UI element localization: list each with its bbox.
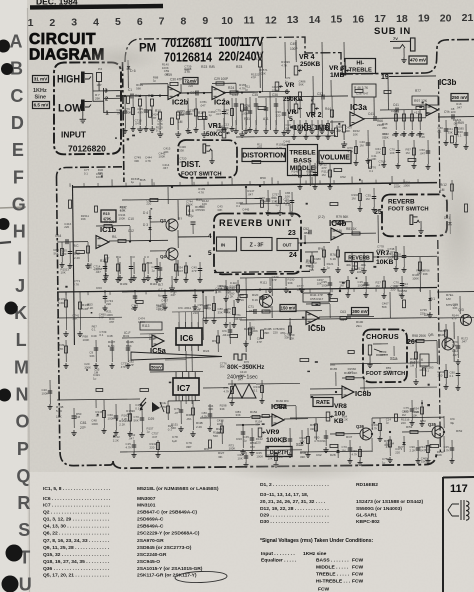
wire [289, 428, 291, 452]
svg-text:47P: 47P [292, 173, 297, 177]
svg-text:TREBLE: TREBLE [289, 150, 316, 157]
svg-text:1μ: 1μ [311, 169, 315, 173]
wire [187, 98, 189, 128]
wire [145, 96, 147, 126]
svg-text:0.1: 0.1 [438, 129, 442, 133]
signal level box 300mV [352, 308, 369, 316]
svg-text:2SA1015-Y (or 2SA1015-GR): 2SA1015-Y (or 2SA1015-GR) [137, 566, 203, 572]
wire [249, 97, 251, 127]
wire [401, 276, 403, 293]
rail components [111, 179, 113, 186]
svg-text:.047: .047 [379, 353, 385, 357]
svg-text:R113: R113 [142, 324, 150, 328]
wire [245, 187, 247, 204]
svg-text:4.7K: 4.7K [444, 448, 450, 452]
svg-text:Hi-TREBLE . . .: Hi-TREBLE . . . [316, 579, 351, 585]
svg-text:220: 220 [150, 445, 155, 449]
svg-text:100K: 100K [242, 111, 249, 115]
svg-text:23: 23 [288, 230, 296, 237]
wire [205, 296, 207, 318]
svg-text:18: 18 [396, 13, 408, 25]
wire [395, 246, 397, 266]
svg-text:100K: 100K [149, 337, 156, 341]
svg-text:33K: 33K [242, 211, 247, 215]
wire [403, 246, 405, 267]
svg-text:C63: C63 [340, 310, 346, 314]
svg-text:10K: 10K [353, 132, 358, 136]
wire [279, 190, 281, 210]
IC8b wiring [335, 372, 337, 386]
q35 bias wires [372, 416, 444, 419]
svg-text:.047: .047 [237, 378, 243, 382]
svg-text:D3~11, 13, 14, 17, 18,: D3~11, 13, 14, 17, 18, [260, 492, 309, 498]
TREBLE BASS MIDDLE box [288, 145, 318, 176]
svg-text:B6K: B6K [126, 344, 132, 348]
svg-text:TREBLE: TREBLE [349, 68, 372, 74]
svg-text:47P: 47P [452, 317, 457, 321]
tone stack pot VR2 symbol [311, 104, 315, 113]
svg-text:Q4: Q4 [160, 254, 166, 259]
svg-text:4.7K: 4.7K [425, 448, 431, 452]
wire IC2a out [225, 91, 258, 93]
svg-text:2.2K: 2.2K [276, 146, 282, 150]
svg-text:A: A [10, 32, 23, 52]
svg-text:REVERB UNIT: REVERB UNIT [219, 218, 292, 228]
svg-text:HI-: HI- [356, 61, 364, 67]
svg-text:220: 220 [307, 173, 312, 177]
right edge wires [437, 291, 474, 293]
IC5a feedback box [140, 322, 162, 330]
svg-text:Q5, 17, 20, 21 . . . . . . . .: Q5, 17, 20, 21 . . . . . . . . . . . . . [43, 573, 110, 579]
svg-text:10K: 10K [412, 413, 417, 417]
svg-text:5.6K: 5.6K [58, 301, 64, 305]
svg-text:1M: 1M [340, 283, 345, 287]
svg-text:47P: 47P [109, 320, 114, 324]
wire [413, 140, 415, 163]
svg-text:33K: 33K [179, 148, 184, 152]
svg-text:1μ: 1μ [455, 130, 459, 134]
svg-text:C21: C21 [190, 91, 196, 95]
svg-text:DISTORTION: DISTORTION [242, 153, 285, 160]
svg-text:C63: C63 [96, 286, 102, 290]
svg-text:8.1K: 8.1K [238, 298, 244, 302]
section separator chain line [214, 271, 310, 272]
wire [122, 291, 214, 292]
svg-text:2: 2 [105, 97, 108, 103]
grounds under reverb [351, 252, 353, 268]
svg-text:1μ: 1μ [386, 421, 390, 425]
wire [150, 370, 203, 373]
svg-text:R109: R109 [120, 282, 128, 286]
svg-text:BASS . . . . . . .: BASS . . . . . . . [316, 558, 349, 564]
svg-text:470 mV: 470 mV [410, 58, 427, 63]
svg-text:R98 290K: R98 290K [412, 334, 427, 338]
IC8a wiring [250, 416, 272, 418]
reverb IN box [217, 237, 237, 251]
svg-text:R79 56K: R79 56K [336, 215, 349, 219]
input jack ground [82, 111, 84, 116]
svg-text:1μ: 1μ [245, 88, 249, 92]
wire [233, 300, 235, 322]
svg-text:HIGH: HIGH [57, 74, 80, 86]
svg-text:C38 -047: C38 -047 [356, 92, 369, 96]
svg-text:10K: 10K [238, 456, 243, 460]
svg-text:R/2F: R/2F [252, 293, 259, 297]
svg-text:1μ: 1μ [147, 430, 151, 434]
IC5b out cap C63 [319, 315, 374, 318]
svg-text:220: 220 [188, 84, 193, 88]
svg-text:R/L: R/L [112, 235, 117, 239]
svg-text:8.1K: 8.1K [252, 298, 258, 302]
svg-text:D 3: D 3 [143, 223, 148, 227]
svg-text:VR8: VR8 [334, 403, 347, 410]
board outline bottom edge [60, 452, 113, 466]
svg-text:37K: 37K [330, 363, 335, 367]
svg-text:C41: C41 [368, 112, 374, 116]
boxed DEPTH label [266, 447, 292, 457]
Q37 emitter chain [245, 278, 248, 340]
svg-text:2: 2 [49, 17, 55, 29]
wire [167, 187, 169, 204]
svg-text:220: 220 [146, 202, 151, 206]
svg-text:MIDDLE . . . . .: MIDDLE . . . . . [316, 565, 349, 571]
svg-text:4: 4 [208, 233, 212, 240]
svg-text:220: 220 [420, 311, 425, 315]
svg-text:R152: R152 [250, 410, 258, 414]
svg-text:47P: 47P [317, 163, 322, 167]
svg-text:Q3: Q3 [160, 218, 166, 223]
svg-text:100K: 100K [84, 366, 91, 370]
svg-text:FCW: FCW [352, 565, 364, 571]
svg-text:56K: 56K [452, 343, 457, 347]
svg-text:220: 220 [106, 302, 111, 306]
svg-text:R111: R111 [260, 281, 267, 285]
svg-text:Q36 . . . . . . . . . . . . .: Q36 . . . . . . . . . . . . . . . . . . … [43, 566, 110, 572]
svg-text:100K: 100K [162, 66, 169, 70]
svg-text:0.1: 0.1 [135, 406, 139, 410]
wire [289, 98, 291, 112]
wire [156, 258, 158, 277]
svg-text:100K: 100K [42, 391, 49, 395]
svg-text:15K: 15K [56, 415, 63, 419]
svg-text:10K: 10K [317, 281, 322, 285]
svg-text:BASS: BASS [293, 157, 312, 164]
R25 divider [240, 104, 243, 111]
svg-text:IC7: IC7 [177, 383, 191, 393]
wire [347, 276, 349, 292]
svg-text:RATE: RATE [316, 400, 330, 406]
svg-text:13: 13 [287, 14, 299, 26]
svg-text:GL-5AR1: GL-5AR1 [356, 512, 377, 518]
svg-text:FCW: FCW [352, 572, 364, 578]
rail 2 segment [240, 318, 437, 320]
svg-text:56K: 56K [136, 87, 141, 91]
svg-text:R/52: R/52 [456, 429, 463, 433]
svg-text:8: 8 [181, 15, 187, 27]
svg-text:33K: 33K [89, 354, 94, 358]
svg-text:0.1: 0.1 [99, 333, 103, 337]
svg-text:MN3007: MN3007 [137, 496, 156, 502]
board outline right jog to SUB IN [341, 40, 474, 75]
svg-text:C10: C10 [128, 217, 134, 221]
svg-text:100K: 100K [377, 248, 384, 252]
svg-text:C48: C48 [107, 334, 113, 338]
svg-text:100K: 100K [412, 276, 419, 280]
wire [69, 242, 71, 263]
wire IC2b out [181, 92, 212, 94]
R45 divider [342, 125, 345, 132]
svg-text:10K: 10K [188, 112, 193, 116]
svg-text:IC3b: IC3b [439, 78, 456, 87]
svg-text:33K: 33K [98, 171, 103, 175]
svg-text:-0413: -0413 [222, 333, 230, 337]
svg-text:10K: 10K [120, 208, 125, 212]
svg-text:R/C: R/C [73, 244, 79, 248]
svg-text:C55 R117: C55 R117 [310, 297, 324, 301]
signal level box 6.5mV [33, 102, 50, 109]
svg-text:47P: 47P [257, 146, 262, 150]
wire [104, 258, 106, 277]
signal level box 250mV [451, 94, 468, 102]
DIST foot switch box [178, 140, 237, 178]
svg-text:C1: C1 [128, 88, 132, 92]
IC4b out [343, 232, 376, 234]
svg-text:25: 25 [374, 209, 382, 216]
transistor Q3 [166, 219, 178, 231]
svg-text:2.2K: 2.2K [74, 256, 80, 260]
IC8b feedback [342, 377, 364, 379]
mid rail caps [104, 291, 106, 303]
svg-text:.047: .047 [452, 353, 458, 357]
wire [200, 416, 250, 419]
svg-text:33K: 33K [391, 254, 396, 258]
svg-text:Q9, 11, 25, 28 . . . . . . . .: Q9, 11, 25, 28 . . . . . . . . . . . . . [43, 545, 110, 551]
svg-text:33K: 33K [384, 135, 389, 139]
wire [203, 316, 246, 319]
R11 divider [202, 112, 205, 119]
wire [199, 262, 201, 277]
REVERB FOOT SWITCH box [382, 194, 447, 236]
input wiring [92, 73, 94, 101]
R10/R20 dividers [158, 112, 161, 119]
svg-text:33K: 33K [81, 217, 86, 221]
svg-text:39K: 39K [264, 331, 269, 335]
svg-text:10K: 10K [390, 151, 395, 155]
wire [355, 140, 357, 160]
svg-text:33K: 33K [218, 310, 223, 314]
svg-text:100K: 100K [83, 338, 90, 342]
wire [309, 163, 311, 186]
IC3a out wire [364, 117, 426, 120]
svg-text:R11,: R11, [198, 111, 205, 115]
svg-text:4.7K: 4.7K [372, 426, 378, 430]
wire [124, 96, 126, 128]
svg-text:Q4, 13, 30 . . . . . . . . . .: Q4, 13, 30 . . . . . . . . . . . . . . .… [43, 524, 110, 530]
svg-text:6.5 mV: 6.5 mV [34, 103, 50, 108]
svg-text:0.1: 0.1 [156, 129, 160, 133]
tone stack long verticals [261, 42, 264, 92]
jack J2 LOW [81, 100, 85, 112]
wire [436, 341, 438, 364]
svg-text:2SD845 (or 2SC2773-O): 2SD845 (or 2SC2773-O) [137, 545, 192, 551]
svg-text:100K: 100K [125, 110, 132, 114]
svg-text:.047: .047 [178, 269, 184, 273]
wire [209, 404, 211, 426]
transformer symbol [461, 500, 464, 520]
LED D29 [152, 402, 160, 412]
svg-text:C% -0611: C% -0611 [178, 306, 191, 310]
signal level box 50mV [150, 364, 163, 370]
depth wiring [236, 424, 260, 426]
svg-text:1μ: 1μ [208, 113, 212, 117]
IC5b feedback [306, 303, 330, 305]
svg-text:D 4: D 4 [143, 211, 148, 215]
svg-text:C46: C46 [336, 229, 342, 233]
wire [314, 163, 316, 184]
transistor Q33 right edge [461, 315, 472, 326]
punch hole dots [0, 40, 10, 53]
wire [307, 428, 309, 452]
svg-text:IC5b: IC5b [308, 324, 325, 333]
svg-text:-0%: -0% [186, 417, 192, 421]
wire [365, 276, 367, 292]
svg-text:0.1: 0.1 [458, 133, 462, 137]
svg-text:47P: 47P [251, 76, 256, 80]
svg-text:56K: 56K [306, 264, 311, 268]
wire [283, 98, 285, 130]
svg-text:220: 220 [193, 311, 198, 315]
svg-text:R23: R23 [201, 65, 207, 69]
svg-text:230K: 230K [377, 123, 384, 127]
svg-text:2.2K: 2.2K [419, 135, 425, 139]
pad blobs [169, 382, 172, 384]
svg-text:100K: 100K [256, 454, 263, 458]
svg-text:220: 220 [391, 288, 396, 292]
svg-text:33P: 33P [186, 445, 191, 449]
svg-text:35K: 35K [336, 129, 343, 133]
wire [237, 280, 239, 297]
svg-text:250KB: 250KB [300, 61, 321, 68]
svg-text:2SD669A-C: 2SD669A-C [137, 517, 164, 523]
svg-text:100K: 100K [159, 155, 166, 159]
svg-text:0.1: 0.1 [236, 204, 240, 208]
wire [327, 120, 329, 134]
tone stack components [235, 98, 237, 125]
boxed REVERB label [345, 253, 373, 262]
svg-text:31 mV: 31 mV [34, 77, 48, 82]
IC3b network box [412, 96, 438, 105]
svg-text:VR9: VR9 [266, 429, 279, 436]
svg-text:33K: 33K [255, 423, 260, 427]
svg-text:33K: 33K [421, 460, 426, 464]
svg-text:7V: 7V [393, 36, 398, 41]
svg-text:4.7K: 4.7K [206, 306, 212, 310]
IC5b input network [246, 310, 322, 313]
wire [267, 190, 269, 210]
wire [311, 96, 313, 118]
wire [300, 450, 372, 453]
svg-text:.047: .047 [216, 112, 222, 116]
reverb switch jack [410, 215, 413, 225]
wire [367, 130, 369, 158]
wire [275, 452, 277, 462]
DISTORTION box [242, 149, 286, 162]
diode D6 [127, 60, 129, 88]
svg-text:10K: 10K [224, 111, 229, 115]
svg-text:33K: 33K [289, 336, 294, 340]
jack J1 HIGH [81, 72, 85, 84]
IC5a input parts [122, 337, 152, 339]
board outline lower-left edge [57, 167, 123, 177]
input block outline [54, 62, 121, 154]
wire [383, 140, 385, 162]
svg-text:56K: 56K [299, 83, 304, 87]
boxed RATE label [313, 398, 333, 407]
svg-text:0.1: 0.1 [92, 328, 96, 332]
svg-text:100K: 100K [119, 216, 126, 220]
svg-text:R97 12K: R97 12K [414, 99, 428, 103]
wire bottom strip [120, 450, 302, 452]
svg-text:R9 220: R9 220 [104, 220, 115, 224]
svg-text:IC8a: IC8a [271, 402, 288, 411]
svg-text:10KB: 10KB [376, 259, 393, 266]
svg-text:A31: A31 [263, 117, 269, 121]
svg-text:1: 1 [106, 111, 109, 117]
svg-text:56K: 56K [131, 307, 136, 311]
svg-text:FCW: FCW [352, 558, 364, 564]
CHORUS FOOT SWITCH box [363, 329, 407, 382]
svg-text:C29 100P: C29 100P [214, 77, 228, 81]
wire [143, 258, 145, 277]
svg-text:10K: 10K [202, 202, 207, 206]
svg-text:33K: 33K [288, 281, 293, 285]
signal level box 150mV (mid) [280, 305, 296, 312]
svg-text:47P: 47P [272, 278, 277, 282]
svg-text:R50: R50 [260, 176, 266, 180]
svg-text:100K: 100K [363, 286, 370, 290]
svg-text:15: 15 [331, 14, 343, 26]
svg-text:VOLUME: VOLUME [320, 155, 350, 162]
svg-text:1μ: 1μ [314, 261, 318, 265]
svg-text:33K: 33K [452, 306, 457, 310]
svg-text:Q2 . . . . . . . . . . . . . .: Q2 . . . . . . . . . . . . . . . . . . .… [43, 509, 110, 515]
svg-text:-047: -047 [340, 318, 346, 322]
junction dots [139, 95, 141, 97]
reverb Z-3F box [241, 238, 272, 251]
IC2b feedback [140, 83, 168, 85]
svg-text:50mV: 50mV [151, 364, 162, 369]
svg-text:1μ: 1μ [282, 439, 286, 443]
svg-text:100K: 100K [322, 283, 329, 287]
wire [132, 96, 134, 126]
svg-text:MN3101: MN3101 [137, 503, 156, 509]
svg-text:2SK117-GR (or 2SK117-Y): 2SK117-GR (or 2SK117-Y) [137, 573, 197, 579]
svg-text:C%: C% [444, 110, 449, 114]
svg-text:100K: 100K [251, 329, 258, 333]
svg-text:2SC945-O: 2SC945-O [137, 559, 160, 565]
svg-text:C33: C33 [232, 93, 238, 97]
svg-text:1μ: 1μ [327, 266, 331, 270]
wire [427, 440, 429, 458]
svg-text:4.7K: 4.7K [224, 389, 230, 393]
svg-text:/0μ: /0μ [450, 421, 455, 425]
IC3a feedback R46 [352, 84, 376, 97]
svg-text:33K: 33K [284, 336, 289, 340]
wire [455, 120, 457, 142]
svg-text:S1a: S1a [390, 356, 398, 361]
svg-text:FOOT SWITCH: FOOT SWITCH [388, 207, 429, 213]
wire [359, 188, 361, 206]
